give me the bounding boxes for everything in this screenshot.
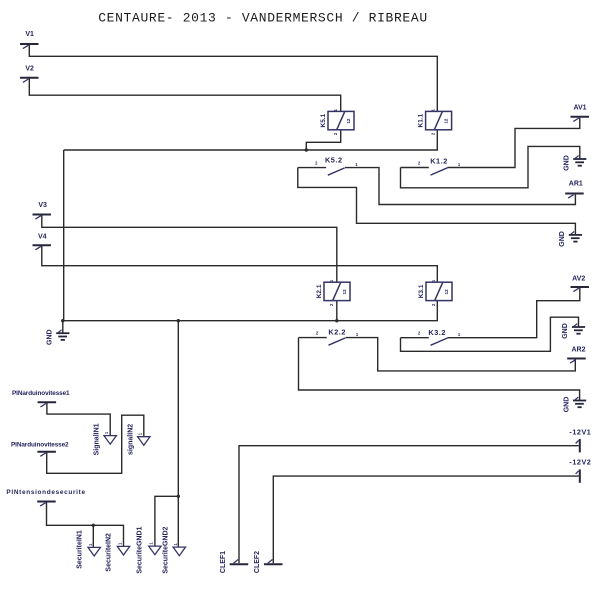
svg-text:V1: V1 [25,31,34,38]
svg-text:SecuriteIN2: SecuriteIN2 [106,533,113,572]
svg-text:12: 12 [342,289,347,295]
svg-text:-12V1: -12V1 [569,427,591,436]
svg-text:12: 12 [346,118,351,124]
svg-text:PINarduinovitesse1: PINarduinovitesse1 [12,390,70,397]
svg-text:K5.1: K5.1 [320,113,327,127]
svg-text:CLEF1: CLEF1 [220,551,227,573]
svg-text:K2.1: K2.1 [316,284,323,298]
svg-text:K1.1: K1.1 [418,113,425,127]
svg-text:SecuriteIN1: SecuriteIN1 [76,530,83,569]
svg-text:GND: GND [559,231,566,247]
svg-text:AR1: AR1 [569,181,583,188]
svg-text:K2.2: K2.2 [328,327,346,336]
svg-text:K1.2: K1.2 [430,156,448,165]
svg-text:AV1: AV1 [573,104,586,111]
svg-text:AR2: AR2 [571,347,585,354]
svg-text:12: 12 [444,289,449,295]
svg-text:V4: V4 [38,234,47,241]
svg-text:signalIN2: signalIN2 [127,424,134,455]
svg-text:GND: GND [562,323,569,339]
svg-text:GND: GND [564,155,571,171]
svg-text:K3.2: K3.2 [428,328,446,337]
svg-text:12: 12 [443,118,448,124]
svg-text:CLEF2: CLEF2 [254,551,261,573]
svg-text:-12V2: -12V2 [569,458,591,467]
svg-text:K3.1: K3.1 [418,284,425,298]
svg-text:PINarduinovitesse2: PINarduinovitesse2 [11,441,69,448]
svg-text:AV2: AV2 [572,275,585,282]
svg-text:V2: V2 [25,66,34,73]
svg-text:SecuriteGND2: SecuriteGND2 [163,526,170,573]
svg-text:CENTAURE- 2013 - VANDERMERSCH: CENTAURE- 2013 - VANDERMERSCH / RIBREAU [98,11,428,26]
svg-text:GND: GND [563,397,570,413]
svg-text:PINtensiondesecurite: PINtensiondesecurite [6,489,85,496]
svg-text:K5.2: K5.2 [325,155,343,164]
svg-text:GND: GND [47,329,54,345]
svg-text:SecuriteGND1: SecuriteGND1 [137,526,144,573]
svg-text:SignalIN1: SignalIN1 [94,423,101,455]
svg-text:V3: V3 [38,202,47,209]
